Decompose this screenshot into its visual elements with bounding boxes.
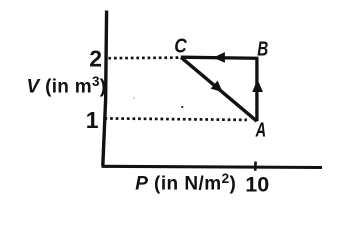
svg-text:1: 1 xyxy=(86,107,99,133)
svg-text:V (in m3): V (in m3) xyxy=(27,74,107,98)
svg-text:C: C xyxy=(174,35,187,57)
arrowhead left on B-C xyxy=(213,52,225,63)
process B to C (isobaric top edge) xyxy=(181,57,259,58)
tick P=10 xyxy=(254,162,257,171)
svg-text:2: 2 xyxy=(89,45,102,71)
speck artifact near diagonal xyxy=(181,106,183,108)
faint speck left xyxy=(133,97,135,99)
arrowhead up on A-B xyxy=(252,79,263,92)
dotted line V=1 xyxy=(105,118,248,120)
svg-text:P (in N/m2): P (in N/m2) xyxy=(135,171,236,195)
arrowhead down-right on C-A xyxy=(211,81,223,93)
svg-text:10: 10 xyxy=(245,173,269,197)
svg-text:A: A xyxy=(255,120,266,142)
process A to B (isochoric, vertical edge) xyxy=(255,58,258,121)
process C to A (diagonal edge) xyxy=(181,57,257,121)
dotted line V=2 xyxy=(108,56,182,59)
x-axis (P axis) xyxy=(102,166,323,167)
y-axis (V axis) xyxy=(103,11,107,167)
svg-text:B: B xyxy=(257,39,268,61)
